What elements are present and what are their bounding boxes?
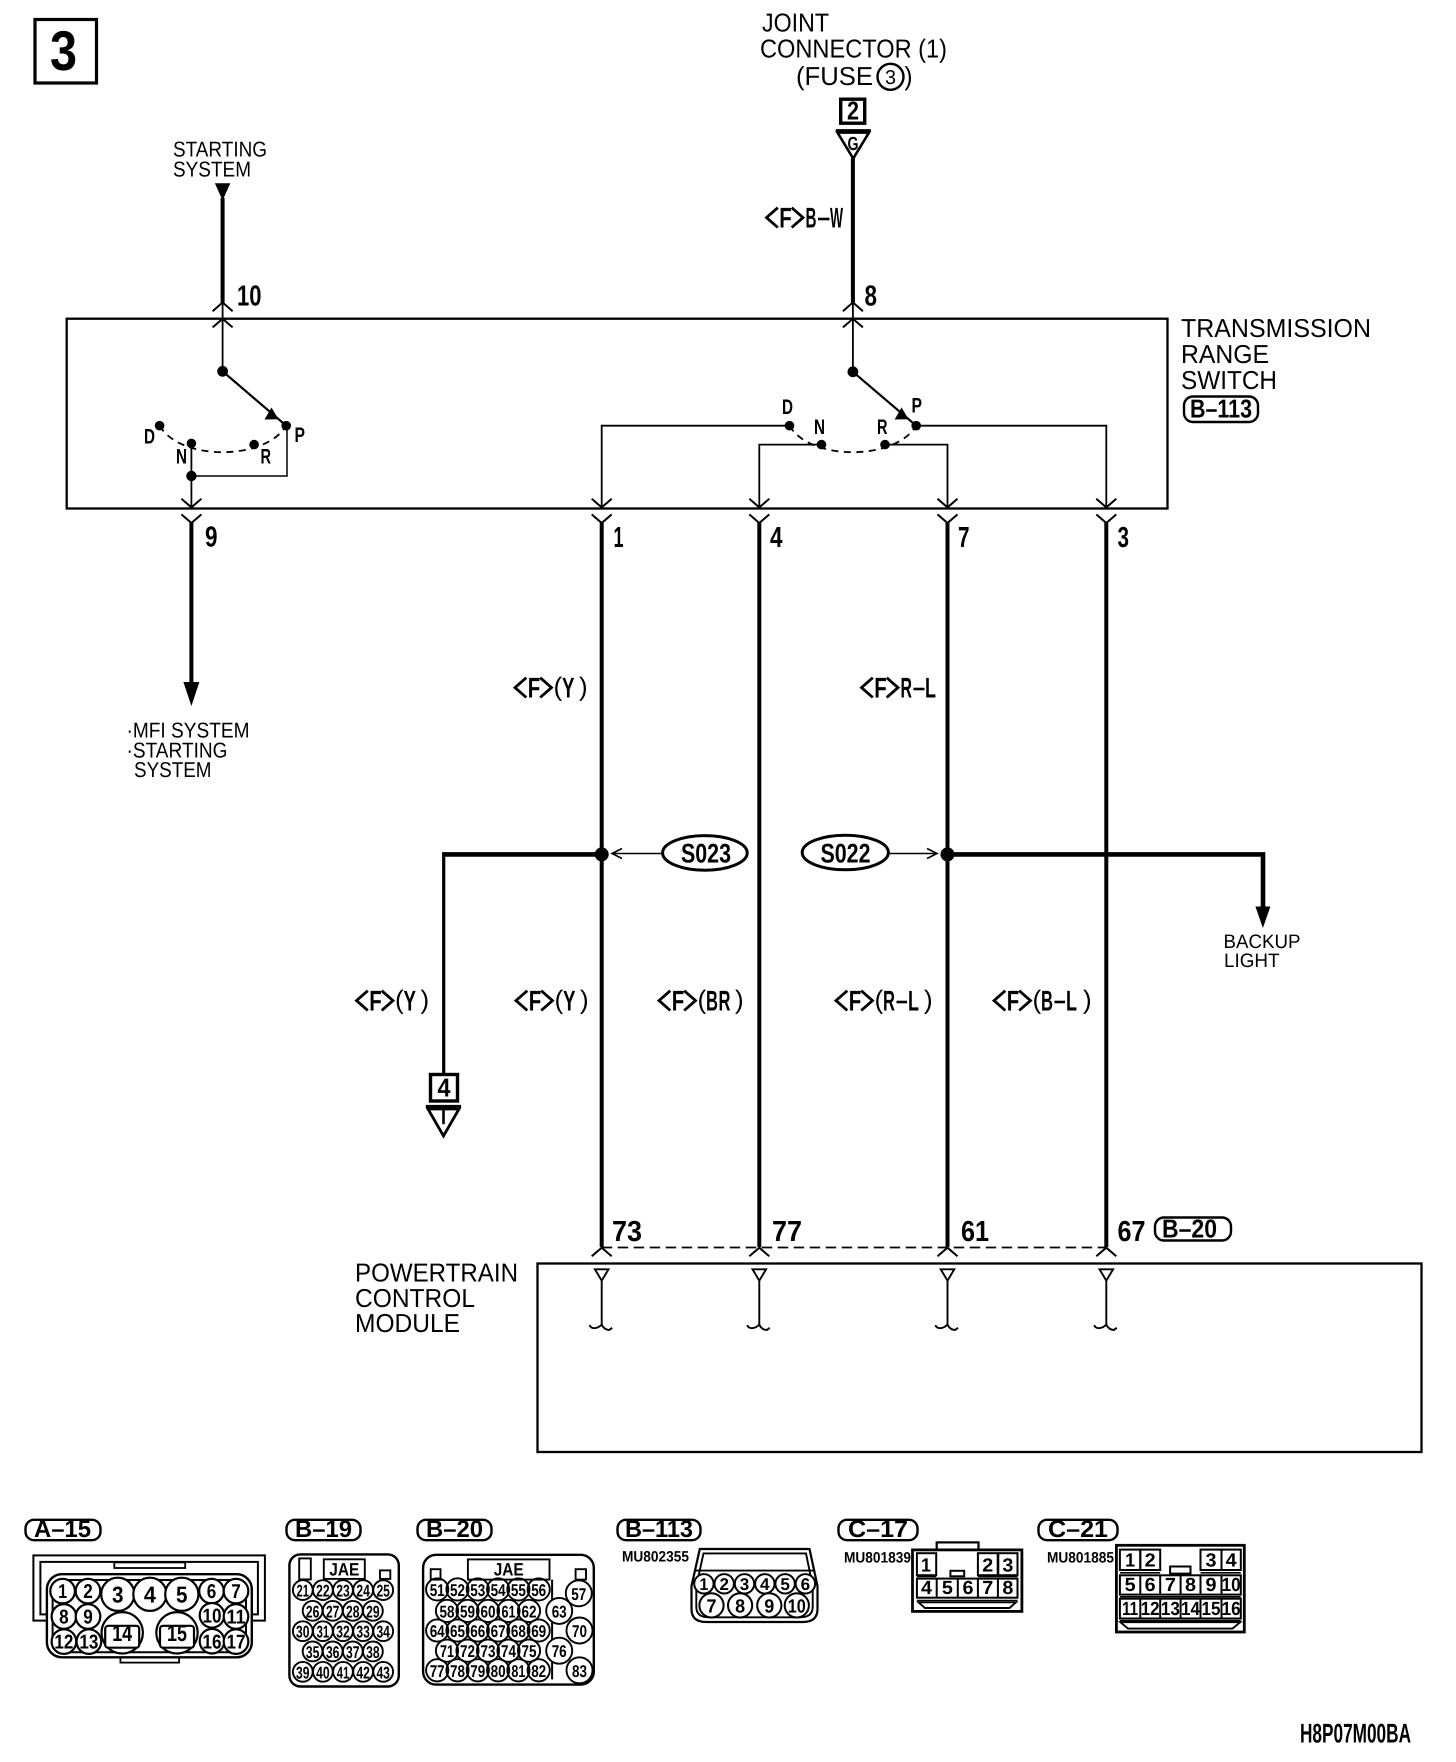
svg-text:7: 7 bbox=[958, 522, 970, 554]
svg-text:): ) bbox=[905, 61, 913, 91]
svg-text:35: 35 bbox=[306, 1643, 320, 1662]
wire branch to backup light bbox=[948, 854, 1264, 908]
svg-text:D: D bbox=[144, 426, 155, 449]
svg-text:5: 5 bbox=[942, 1578, 953, 1599]
svg-text:3: 3 bbox=[885, 67, 896, 89]
svg-text:69: 69 bbox=[531, 1622, 546, 1641]
svg-text:1: 1 bbox=[614, 522, 624, 554]
svg-text:7: 7 bbox=[231, 1581, 241, 1603]
svg-text:16: 16 bbox=[203, 1632, 222, 1654]
connector C-17 drawing bbox=[913, 1542, 1022, 1611]
svg-text:B: B bbox=[1041, 986, 1053, 1018]
transmission range switch box B-113 bbox=[67, 319, 1168, 509]
svg-text:N: N bbox=[814, 416, 825, 439]
svg-text:6: 6 bbox=[963, 1578, 974, 1599]
junction dot S023 bbox=[595, 847, 609, 861]
wire pin7 thick bbox=[946, 523, 950, 1247]
page number box 3 bbox=[35, 19, 97, 83]
svg-text:33: 33 bbox=[356, 1623, 370, 1642]
svg-text:67: 67 bbox=[1118, 1216, 1146, 1248]
svg-text:22: 22 bbox=[316, 1582, 330, 1601]
svg-text:31: 31 bbox=[317, 1623, 330, 1642]
svg-text:73: 73 bbox=[612, 1216, 642, 1248]
connector label B-113 bbox=[1184, 394, 1258, 424]
svg-text:61: 61 bbox=[502, 1602, 516, 1621]
svg-text:77: 77 bbox=[430, 1662, 445, 1681]
svg-text:): ) bbox=[421, 985, 430, 1015]
right switch labels D N R P bbox=[782, 395, 922, 440]
svg-text:54: 54 bbox=[491, 1581, 506, 1600]
label MFI SYSTEM STARTING SYSTEM bbox=[127, 718, 250, 782]
wire pin3 thick bbox=[1104, 523, 1108, 1247]
junction dot S022 bbox=[941, 847, 955, 861]
wire label F B-L pin3 bbox=[994, 985, 1092, 1018]
svg-text:G: G bbox=[848, 134, 859, 155]
junction dot pin9 bbox=[186, 471, 196, 481]
svg-text:MODULE: MODULE bbox=[355, 1308, 460, 1338]
connector B-19 labels bbox=[296, 1559, 390, 1682]
svg-text:60: 60 bbox=[481, 1602, 496, 1621]
svg-text:70: 70 bbox=[572, 1622, 587, 1641]
svg-text:26: 26 bbox=[306, 1602, 320, 1621]
wire label F B-W bbox=[767, 203, 844, 235]
svg-text:40: 40 bbox=[316, 1663, 330, 1682]
svg-text:28: 28 bbox=[346, 1602, 360, 1621]
svg-text:R: R bbox=[901, 673, 913, 705]
svg-text:55: 55 bbox=[511, 1581, 526, 1600]
svg-text:10: 10 bbox=[237, 281, 262, 313]
svg-text:H8P07M00BA: H8P07M00BA bbox=[1300, 1719, 1411, 1749]
pcm connector dashed line bbox=[602, 1247, 1107, 1249]
svg-text:Y: Y bbox=[563, 986, 576, 1018]
svg-text:37: 37 bbox=[346, 1643, 360, 1662]
connector chevron pin77 bbox=[749, 1248, 769, 1257]
svg-text:B: B bbox=[706, 986, 718, 1018]
connector C-17 pin numbers bbox=[921, 1556, 1013, 1599]
svg-text:3: 3 bbox=[1118, 522, 1130, 554]
svg-text:65: 65 bbox=[450, 1622, 465, 1641]
svg-text:71: 71 bbox=[440, 1642, 454, 1661]
svg-text:F: F bbox=[779, 203, 792, 235]
connector label C-21 bbox=[1039, 1516, 1118, 1543]
svg-text:B–20: B–20 bbox=[426, 1516, 483, 1543]
left switch contact R bbox=[249, 440, 259, 450]
svg-text:1: 1 bbox=[921, 1556, 931, 1577]
svg-text:68: 68 bbox=[511, 1622, 526, 1641]
svg-text:8: 8 bbox=[1185, 1575, 1196, 1596]
svg-text:14: 14 bbox=[1181, 1599, 1200, 1620]
svg-text:58: 58 bbox=[440, 1602, 455, 1621]
svg-text:1: 1 bbox=[58, 1581, 67, 1603]
wire pin10 thick bbox=[221, 198, 225, 303]
label POWERTRAIN CONTROL MODULE bbox=[355, 1258, 518, 1339]
svg-text:F: F bbox=[672, 986, 685, 1018]
label STARTING SYSTEM bbox=[173, 137, 267, 181]
wire branch to offpage 4 vertical bbox=[442, 852, 445, 1074]
svg-text:L: L bbox=[1066, 986, 1077, 1018]
connector label B-113 bottom bbox=[618, 1516, 701, 1543]
svg-text:64: 64 bbox=[430, 1622, 445, 1641]
svg-text:75: 75 bbox=[522, 1642, 537, 1661]
svg-text:32: 32 bbox=[336, 1623, 350, 1642]
left switch contact P bbox=[281, 421, 291, 431]
svg-text:15: 15 bbox=[167, 1620, 187, 1646]
svg-text:2: 2 bbox=[982, 1556, 993, 1577]
svg-text:): ) bbox=[579, 672, 588, 702]
svg-text:76: 76 bbox=[552, 1642, 567, 1661]
pcm terminal 77 bbox=[747, 1269, 770, 1330]
svg-text:30: 30 bbox=[296, 1623, 310, 1642]
connector B-113 pin numbers bbox=[699, 1575, 810, 1617]
right switch contact R bbox=[880, 440, 890, 450]
svg-text:6: 6 bbox=[1145, 1575, 1156, 1596]
svg-text:59: 59 bbox=[460, 1602, 475, 1621]
svg-text:Y: Y bbox=[404, 986, 417, 1018]
left switch contact N bbox=[187, 439, 197, 449]
connector A-15 pin numbers bbox=[54, 1581, 245, 1654]
svg-text:P: P bbox=[912, 395, 923, 418]
right switch contact N bbox=[817, 440, 827, 450]
svg-text:16: 16 bbox=[1222, 1599, 1241, 1620]
connector chevron pin73 bbox=[592, 1248, 612, 1257]
right switch pivot bbox=[848, 366, 859, 377]
svg-text:R: R bbox=[719, 986, 731, 1018]
svg-text:F: F bbox=[849, 986, 862, 1018]
right switch contact D bbox=[785, 421, 795, 431]
connector B-113 drawing bbox=[692, 1549, 818, 1622]
connector B-20 drawing bbox=[423, 1555, 594, 1685]
wire pin8 thin into box bbox=[852, 303, 854, 372]
svg-text:12: 12 bbox=[1141, 1599, 1160, 1620]
svg-text:F: F bbox=[529, 986, 542, 1018]
svg-text:24: 24 bbox=[356, 1582, 370, 1601]
right switch blade to P bbox=[853, 372, 916, 426]
svg-text:10: 10 bbox=[1222, 1575, 1241, 1596]
svg-text:B–113: B–113 bbox=[1190, 394, 1252, 424]
svg-text:SWITCH: SWITCH bbox=[1181, 365, 1277, 395]
svg-text:3: 3 bbox=[1206, 1551, 1217, 1572]
wire label F R-L pin7 bbox=[836, 985, 933, 1018]
svg-text:): ) bbox=[580, 985, 589, 1015]
svg-text:2: 2 bbox=[83, 1581, 93, 1603]
label JOINT CONNECTOR (1) (FUSE 3) bbox=[760, 8, 947, 92]
wire D to pin1 bbox=[602, 426, 790, 507]
svg-text:56: 56 bbox=[531, 1581, 546, 1600]
svg-text:MU801839: MU801839 bbox=[844, 1550, 911, 1567]
svg-text:N: N bbox=[176, 446, 187, 469]
svg-text:74: 74 bbox=[501, 1642, 516, 1661]
svg-text:(FUSE: (FUSE bbox=[796, 61, 873, 91]
svg-text:36: 36 bbox=[326, 1643, 340, 1662]
svg-text:79: 79 bbox=[470, 1662, 485, 1681]
svg-text:14: 14 bbox=[112, 1620, 132, 1646]
svg-text:73: 73 bbox=[481, 1642, 496, 1661]
joint connector box 2 bbox=[841, 96, 865, 126]
wire pin10 thin into box bbox=[222, 303, 224, 372]
svg-text:4: 4 bbox=[1226, 1551, 1237, 1572]
wire pin4 thick bbox=[757, 523, 761, 1247]
left switch pivot bbox=[217, 366, 228, 377]
svg-text:2: 2 bbox=[719, 1575, 729, 1594]
svg-text:): ) bbox=[1083, 985, 1092, 1015]
connector chevrons pin1 bbox=[592, 499, 612, 523]
svg-text:L: L bbox=[908, 986, 919, 1018]
wire label F Y pin1 bbox=[516, 985, 589, 1018]
wire pin1 thick bbox=[600, 523, 604, 1247]
svg-text:1: 1 bbox=[1125, 1551, 1135, 1572]
svg-text:CONNECTOR (1): CONNECTOR (1) bbox=[760, 34, 947, 64]
wire N to junction bbox=[190, 443, 192, 476]
svg-text:11: 11 bbox=[227, 1607, 246, 1629]
arrow S023 to junction bbox=[612, 849, 663, 859]
svg-text:3: 3 bbox=[112, 1581, 124, 1607]
svg-text:6: 6 bbox=[801, 1575, 811, 1594]
wire pin9 thick bbox=[189, 523, 193, 684]
svg-text:10: 10 bbox=[203, 1605, 222, 1627]
svg-text:3: 3 bbox=[50, 19, 77, 82]
wire label F Y upper bbox=[515, 672, 588, 705]
svg-text:41: 41 bbox=[337, 1663, 350, 1682]
svg-text:1: 1 bbox=[699, 1575, 708, 1594]
powertrain control module box bbox=[538, 1264, 1422, 1453]
svg-text:B–19: B–19 bbox=[295, 1516, 352, 1543]
arrow to MFI system bbox=[183, 682, 199, 706]
svg-text:9: 9 bbox=[205, 522, 218, 554]
svg-text:39: 39 bbox=[296, 1663, 310, 1682]
svg-text:3: 3 bbox=[1002, 1556, 1013, 1577]
svg-text:F: F bbox=[528, 673, 541, 705]
arrow from starting system bbox=[215, 183, 230, 200]
svg-text:P: P bbox=[295, 424, 306, 447]
svg-text:62: 62 bbox=[522, 1602, 537, 1621]
svg-text:8: 8 bbox=[59, 1607, 69, 1629]
svg-text:15: 15 bbox=[1202, 1599, 1221, 1620]
svg-text:4: 4 bbox=[438, 1073, 451, 1103]
svg-text:2: 2 bbox=[1145, 1551, 1156, 1572]
joint connector triangle G bbox=[836, 131, 871, 159]
label TRANSMISSION RANGE SWITCH bbox=[1181, 313, 1371, 395]
svg-text:5: 5 bbox=[780, 1575, 790, 1594]
svg-text:7: 7 bbox=[982, 1578, 993, 1599]
svg-text:5: 5 bbox=[176, 1581, 188, 1607]
svg-text:11: 11 bbox=[1122, 1599, 1138, 1620]
svg-text:MU801885: MU801885 bbox=[1047, 1550, 1114, 1567]
svg-text:R: R bbox=[261, 446, 272, 469]
right switch contact P bbox=[911, 421, 921, 431]
svg-text:7: 7 bbox=[707, 1596, 717, 1617]
svg-text:SYSTEM: SYSTEM bbox=[134, 758, 212, 782]
splice S023 oval bbox=[663, 836, 748, 871]
svg-text:L: L bbox=[925, 673, 936, 705]
svg-text:C–21: C–21 bbox=[1048, 1516, 1108, 1543]
pcm terminal 67 bbox=[1094, 1269, 1117, 1330]
svg-text:63: 63 bbox=[552, 1602, 567, 1621]
svg-text:8: 8 bbox=[735, 1596, 745, 1617]
wire label F R-L upper bbox=[862, 673, 937, 705]
svg-text:C–17: C–17 bbox=[848, 1516, 908, 1543]
svg-text:B: B bbox=[806, 203, 817, 235]
connector chevrons pin7 bbox=[938, 499, 958, 523]
svg-text:82: 82 bbox=[531, 1662, 546, 1681]
svg-text:10: 10 bbox=[788, 1596, 806, 1617]
svg-text:3: 3 bbox=[740, 1575, 750, 1594]
svg-text:4: 4 bbox=[760, 1575, 770, 1594]
connector chevrons pin3 bbox=[1096, 499, 1116, 523]
svg-text:34: 34 bbox=[376, 1623, 390, 1642]
wire label F BR pin4 bbox=[659, 985, 744, 1018]
wire R to pin7 bbox=[885, 445, 948, 507]
svg-text:9: 9 bbox=[764, 1596, 774, 1617]
wire P to pin3 bbox=[916, 426, 1106, 507]
offpage triangle symbol bbox=[426, 1107, 461, 1137]
svg-text:61: 61 bbox=[961, 1216, 989, 1248]
svg-text:67: 67 bbox=[491, 1622, 506, 1641]
svg-text:): ) bbox=[735, 985, 744, 1015]
svg-text:4: 4 bbox=[770, 522, 783, 554]
svg-text:LIGHT: LIGHT bbox=[1224, 950, 1280, 972]
svg-text:80: 80 bbox=[491, 1662, 506, 1681]
svg-text:25: 25 bbox=[376, 1582, 390, 1601]
svg-text:8: 8 bbox=[1002, 1578, 1013, 1599]
svg-text:13: 13 bbox=[1161, 1599, 1180, 1620]
svg-text:B–20: B–20 bbox=[1162, 1214, 1217, 1244]
svg-text:SYSTEM: SYSTEM bbox=[173, 158, 251, 182]
splice S022 oval bbox=[802, 835, 888, 870]
arrow to backup light bbox=[1255, 907, 1270, 929]
connector B-20 labels bbox=[430, 1560, 587, 1681]
svg-text:38: 38 bbox=[366, 1643, 380, 1662]
svg-text:5: 5 bbox=[1125, 1575, 1136, 1596]
connector chevrons pin4 bbox=[749, 499, 769, 523]
wire branch to offpage 4 horizontal bbox=[444, 852, 602, 857]
svg-text:S022: S022 bbox=[821, 839, 871, 869]
left switch blade to P bbox=[223, 371, 287, 425]
svg-text:8: 8 bbox=[865, 281, 878, 313]
pcm terminal 61 bbox=[936, 1269, 959, 1330]
svg-text:81: 81 bbox=[511, 1662, 525, 1681]
left switch labels D N R P bbox=[144, 424, 305, 469]
offpage connector box 4 bbox=[431, 1073, 458, 1103]
arrow S022 to junction bbox=[888, 849, 937, 859]
svg-text:42: 42 bbox=[356, 1663, 370, 1682]
svg-text:12: 12 bbox=[54, 1632, 73, 1654]
svg-text:53: 53 bbox=[470, 1581, 485, 1600]
svg-text:83: 83 bbox=[572, 1662, 587, 1681]
svg-text:27: 27 bbox=[326, 1602, 340, 1621]
svg-text:MU802355: MU802355 bbox=[622, 1549, 689, 1566]
svg-text:72: 72 bbox=[460, 1642, 475, 1661]
connector label B-20 bbox=[1155, 1214, 1231, 1244]
right switch dashed arc bbox=[790, 426, 917, 452]
svg-text:13: 13 bbox=[79, 1632, 98, 1654]
svg-text:29: 29 bbox=[366, 1602, 380, 1621]
svg-text:W: W bbox=[830, 203, 843, 235]
svg-text:R: R bbox=[877, 416, 888, 439]
label BACKUP LIGHT bbox=[1224, 931, 1301, 972]
svg-text:S023: S023 bbox=[681, 839, 731, 869]
pcm terminal 73 bbox=[590, 1269, 613, 1330]
svg-text:D: D bbox=[782, 396, 793, 419]
svg-text:4: 4 bbox=[144, 1581, 156, 1607]
connector label C-17 bbox=[839, 1516, 918, 1543]
connector chevron pin61 bbox=[938, 1248, 958, 1257]
svg-text:6: 6 bbox=[207, 1581, 217, 1603]
svg-text:): ) bbox=[924, 985, 933, 1015]
svg-text:52: 52 bbox=[450, 1581, 465, 1600]
svg-text:4: 4 bbox=[921, 1578, 932, 1599]
svg-text:43: 43 bbox=[376, 1663, 390, 1682]
svg-text:78: 78 bbox=[450, 1662, 465, 1681]
svg-text:57: 57 bbox=[571, 1585, 586, 1604]
svg-text:JAE: JAE bbox=[329, 1559, 359, 1579]
svg-text:7: 7 bbox=[1165, 1575, 1176, 1596]
svg-text:2: 2 bbox=[847, 96, 859, 126]
wire junction to P loop bbox=[191, 428, 287, 476]
svg-text:9: 9 bbox=[83, 1607, 93, 1629]
svg-text:F: F bbox=[874, 673, 887, 705]
connector C-21 drawing bbox=[1116, 1545, 1244, 1632]
svg-text:51: 51 bbox=[430, 1581, 445, 1600]
svg-text:9: 9 bbox=[1206, 1575, 1217, 1596]
svg-text:17: 17 bbox=[227, 1632, 246, 1654]
connector label A-15 bbox=[26, 1516, 101, 1543]
wire label F Y branch bbox=[357, 985, 430, 1018]
svg-text:21: 21 bbox=[297, 1582, 310, 1601]
connector label B-20 bottom bbox=[418, 1516, 492, 1543]
svg-text:F: F bbox=[369, 986, 382, 1018]
wire pin9 inside box bbox=[190, 476, 192, 507]
svg-text:66: 66 bbox=[470, 1622, 485, 1641]
svg-text:B–113: B–113 bbox=[625, 1516, 693, 1543]
wire N to pin4 bbox=[759, 445, 821, 507]
connector chevrons pin9 bbox=[181, 499, 201, 523]
wire pin8 thick bbox=[851, 158, 855, 303]
svg-text:A–15: A–15 bbox=[34, 1516, 91, 1543]
connector A-15 drawing bbox=[33, 1555, 265, 1662]
left switch dashed arc bbox=[160, 426, 287, 452]
svg-text:R: R bbox=[883, 986, 895, 1018]
connector label B-19 bbox=[287, 1516, 361, 1543]
svg-text:F: F bbox=[1007, 986, 1020, 1018]
left switch contact D bbox=[155, 421, 165, 431]
svg-text:Y: Y bbox=[562, 673, 575, 705]
svg-text:JAE: JAE bbox=[494, 1560, 524, 1580]
svg-text:77: 77 bbox=[772, 1216, 802, 1248]
connector chevrons pin10 bbox=[213, 302, 233, 327]
svg-text:23: 23 bbox=[336, 1582, 350, 1601]
connector chevrons pin8 bbox=[843, 302, 863, 327]
connector B-19 drawing bbox=[289, 1554, 398, 1686]
connector C-21 pin numbers bbox=[1122, 1551, 1241, 1621]
connector chevron pin67 bbox=[1096, 1248, 1116, 1257]
